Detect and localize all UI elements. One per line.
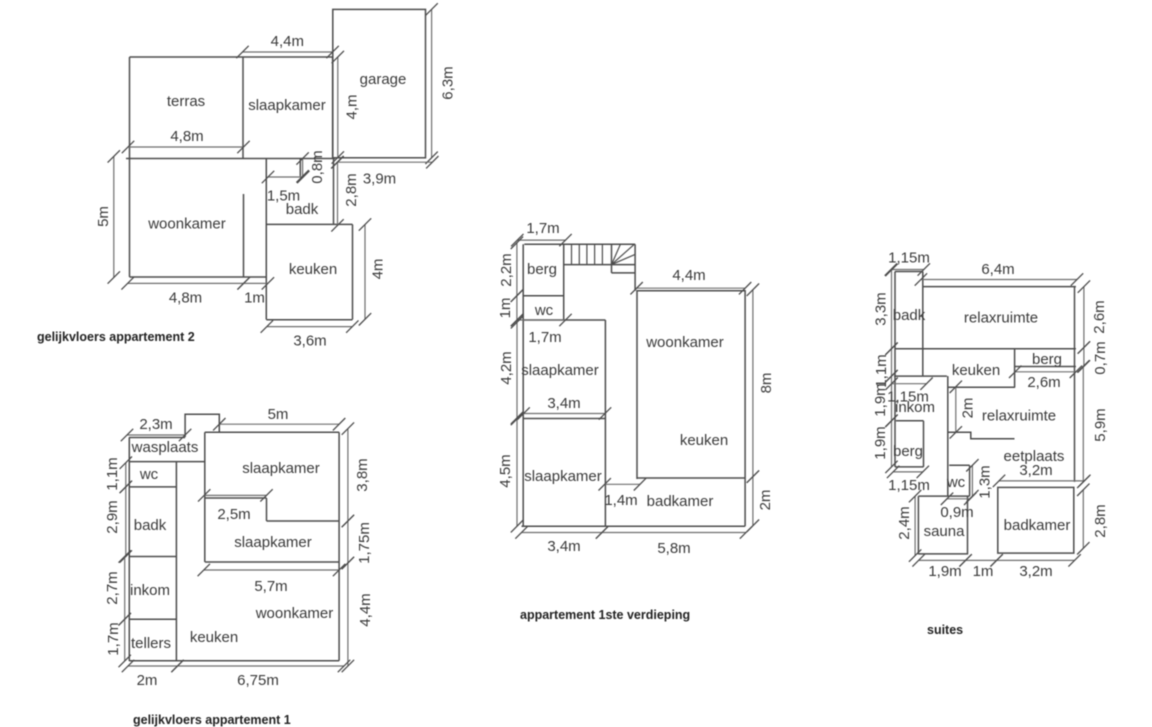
- svg-text:berg: berg: [527, 261, 557, 278]
- wall badk bottom / keuken top: [266, 223, 352, 225]
- wall wc right: [969, 465, 971, 496]
- dim 1,1m wc height: [125, 463, 127, 487]
- svg-text:wc: wc: [946, 474, 966, 491]
- wall badk bottom: [129, 556, 176, 558]
- wall left terras+woonkamer: [129, 57, 131, 277]
- dim 4,8m terras width: [128, 146, 244, 148]
- svg-text:badk: badk: [134, 517, 167, 534]
- svg-text:2m: 2m: [137, 672, 158, 689]
- svg-text:4m: 4m: [370, 259, 387, 280]
- svg-text:3,6m: 3,6m: [293, 332, 326, 349]
- svg-text:6,3m: 6,3m: [440, 66, 457, 99]
- svg-text:slaapkamer: slaapkamer: [234, 534, 312, 551]
- dim 2,6m berg2 width: [1015, 371, 1076, 373]
- dim 8m woonkamer height: [752, 290, 754, 477]
- wall wc bottom / sauna top: [918, 495, 969, 497]
- svg-text:1,9m: 1,9m: [872, 426, 889, 459]
- svg-text:2,5m: 2,5m: [217, 506, 250, 523]
- svg-text:4,8m: 4,8m: [169, 290, 202, 307]
- dim 3,2m eetplaats width: [999, 480, 1084, 482]
- svg-text:2,9m: 2,9m: [104, 500, 121, 533]
- wall woonkamer right / keuken left: [265, 159, 267, 320]
- svg-text:badk: badk: [286, 201, 319, 218]
- svg-text:woonkamer: woonkamer: [255, 605, 334, 622]
- svg-text:5,7m: 5,7m: [254, 578, 287, 595]
- dim 2,8m badk height: [337, 162, 339, 225]
- dim 1m wc height: [516, 296, 518, 320]
- svg-text:1,7m: 1,7m: [528, 329, 561, 346]
- dim 1m gap width: [966, 559, 997, 561]
- dim 1,1m gap height: [891, 349, 893, 376]
- svg-text:2,8m: 2,8m: [343, 173, 360, 206]
- svg-text:badkamer: badkamer: [647, 493, 714, 510]
- wall garage outline: [333, 9, 426, 157]
- dim 5m slaapkamer width: [219, 423, 339, 425]
- svg-text:0,7m: 0,7m: [1092, 341, 1109, 374]
- wall slaapkamer step side: [266, 498, 268, 521]
- svg-text:4,4m: 4,4m: [271, 33, 304, 50]
- svg-text:terras: terras: [167, 93, 205, 110]
- wall sauna left: [917, 496, 919, 554]
- dim 4,5m slaapkamer2 height: [516, 419, 518, 526]
- svg-text:4,2m: 4,2m: [498, 351, 515, 384]
- wall woonkamer top: [637, 290, 746, 292]
- wall outer right: [744, 290, 746, 526]
- wall outer bottom: [129, 660, 339, 662]
- wall berg right: [563, 244, 565, 320]
- dim 0,7m berg2 height: [1083, 348, 1085, 367]
- dim 1,7m wc width: [517, 319, 565, 321]
- svg-text:3,4m: 3,4m: [547, 538, 580, 555]
- dim 0,9m wc width: [947, 498, 970, 500]
- svg-text:1m: 1m: [973, 563, 994, 580]
- wall wc bottom / slaapkamer top: [523, 319, 605, 321]
- wall berg bottom: [895, 466, 924, 468]
- dim 1,15m badk width: [891, 269, 924, 271]
- wall keuken bottom: [266, 319, 352, 321]
- dim 2,2m berg height: [516, 243, 518, 296]
- dim 2m badkamer height: [752, 477, 754, 526]
- dim 1,15m berg width: [893, 471, 923, 473]
- svg-text:2,8m: 2,8m: [1092, 504, 1109, 537]
- stair treads: [572, 244, 603, 264]
- dim 3,3m badk height: [891, 270, 893, 349]
- wall berg/wc divider: [523, 295, 564, 297]
- wall outer bottom: [522, 525, 746, 527]
- dim 4,2m slaapkamer height: [516, 322, 518, 418]
- wall berg2 bottom: [1015, 366, 1076, 368]
- dim 5,9m relax2 height: [1082, 366, 1084, 482]
- wall slaapkamer left: [204, 432, 206, 562]
- svg-text:5m: 5m: [268, 406, 289, 423]
- wall top of terras+slaapkamer: [130, 56, 333, 58]
- svg-text:woonkamer: woonkamer: [147, 216, 226, 233]
- svg-text:berg: berg: [893, 443, 923, 460]
- svg-text:2,6m: 2,6m: [1027, 374, 1060, 391]
- svg-text:slaapkamer: slaapkamer: [242, 460, 320, 477]
- svg-text:keuken: keuken: [190, 629, 238, 646]
- svg-text:suites: suites: [927, 623, 963, 637]
- dim 5,8m badkamer width: [602, 532, 746, 534]
- svg-text:5m: 5m: [95, 206, 112, 227]
- svg-text:sauna: sauna: [924, 523, 966, 540]
- svg-text:inkom: inkom: [130, 582, 170, 599]
- svg-text:1m: 1m: [497, 298, 514, 319]
- wall inkom top: [894, 375, 947, 377]
- dim 4,4m woonkamer height: [347, 563, 349, 666]
- svg-text:1,15m: 1,15m: [888, 250, 930, 267]
- dim 3,2m badkamer width: [997, 559, 1075, 561]
- svg-text:8m: 8m: [758, 373, 775, 394]
- dim 4m keuken height: [364, 225, 366, 320]
- wall stair right: [634, 244, 636, 290]
- wall stub at badk niche: [299, 159, 301, 177]
- svg-text:6,75m: 6,75m: [237, 672, 279, 689]
- svg-text:gelijkvloers appartement 2: gelijkvloers appartement 2: [37, 330, 195, 344]
- dim 1,3m wc height: [971, 465, 973, 496]
- wall below terras/slaapkamer: [126, 158, 335, 160]
- svg-text:badkamer: badkamer: [1004, 517, 1071, 534]
- svg-text:appartement 1ste verdieping: appartement 1ste verdieping: [520, 608, 690, 622]
- svg-text:2,7m: 2,7m: [104, 571, 121, 604]
- svg-text:2m: 2m: [757, 490, 774, 511]
- svg-text:4,4m: 4,4m: [357, 593, 374, 626]
- wall keuken right: [1014, 348, 1016, 387]
- wall berg top: [896, 420, 924, 422]
- wall notch above wasplaats: [185, 414, 219, 437]
- svg-text:keuken: keuken: [680, 432, 728, 449]
- svg-text:4,m: 4,m: [344, 94, 361, 119]
- svg-text:inkom: inkom: [895, 399, 935, 416]
- dim 2,7m inkom height: [124, 557, 126, 620]
- wall slaapkamer right: [332, 57, 334, 159]
- svg-text:wasplaats: wasplaats: [131, 439, 199, 456]
- dim 2,6m relaxruimte height: [1083, 287, 1085, 348]
- wall badk right: [922, 272, 924, 377]
- wall terras/slaapkamer divider: [242, 57, 244, 159]
- stair landing side: [611, 244, 613, 273]
- dim 6,3m garage height: [431, 9, 433, 157]
- svg-text:garage: garage: [360, 71, 407, 88]
- svg-text:0,9m: 0,9m: [940, 504, 973, 521]
- dim 3,6m keuken width: [267, 326, 353, 328]
- svg-text:woonkamer: woonkamer: [645, 334, 724, 351]
- svg-text:2,3m: 2,3m: [139, 416, 172, 433]
- svg-text:keuken: keuken: [289, 261, 337, 278]
- wall sauna bottom: [918, 553, 968, 555]
- wall step relaxruimte: [948, 432, 1015, 439]
- dim 2,8m badkamer height: [1082, 490, 1084, 549]
- wall slaapkamer2 bottom: [205, 561, 339, 563]
- svg-text:gelijkvloers appartement 1: gelijkvloers appartement 1: [133, 713, 291, 727]
- wall sauna right: [967, 496, 969, 554]
- dim 1,9m inkom height: [891, 376, 893, 421]
- dim 6,4m relaxruimte width: [921, 279, 1077, 281]
- wall outer left: [522, 244, 524, 526]
- wall slaapkamer divider right part: [267, 520, 340, 522]
- dim 1,9m sauna width: [919, 559, 966, 561]
- svg-text:1,7m: 1,7m: [105, 622, 122, 655]
- svg-text:slaapkamer: slaapkamer: [524, 468, 602, 485]
- svg-text:relaxruimte: relaxruimte: [982, 408, 1056, 425]
- svg-text:1,3m: 1,3m: [977, 465, 994, 498]
- wall wasplaats top: [129, 437, 185, 439]
- wall wc top: [949, 464, 969, 466]
- stair landing bottom: [612, 272, 636, 274]
- dim 0,8m notch height: [302, 159, 304, 177]
- svg-text:2,2m: 2,2m: [498, 253, 515, 286]
- dim 1m hall width: [244, 282, 268, 284]
- svg-text:berg: berg: [1032, 351, 1062, 368]
- wall badkamer top: [637, 477, 745, 479]
- svg-text:keuken: keuken: [952, 362, 1000, 379]
- dim 2m tellers width: [128, 665, 178, 667]
- dim 4,8m woonkamer width: [128, 282, 244, 284]
- dim 4,4m woonkamer width: [637, 287, 746, 289]
- dim 3,4m slaapkamer width bottom: [522, 532, 603, 534]
- svg-text:2,6m: 2,6m: [1091, 300, 1108, 333]
- wall wasplaats bottom: [129, 461, 205, 463]
- wall woonkamer bottom: [130, 276, 267, 278]
- wall outer left column: [894, 272, 896, 467]
- svg-text:5,9m: 5,9m: [1092, 408, 1109, 441]
- dim 6,75m keuken+woonkamer width: [178, 665, 345, 667]
- svg-text:4,8m: 4,8m: [170, 128, 203, 145]
- wall top berg+stairs: [524, 243, 635, 245]
- wall slaapkamer step top: [205, 497, 267, 499]
- wall keuken right: [352, 224, 354, 319]
- dim 1,7m berg width: [517, 239, 565, 241]
- dim 5,7m slaapkamer2 width: [204, 569, 339, 571]
- wall outer right: [338, 432, 340, 661]
- svg-text:3,8m: 3,8m: [354, 458, 371, 491]
- svg-text:1,1m: 1,1m: [104, 457, 121, 490]
- svg-text:1,7m: 1,7m: [526, 220, 559, 237]
- dim 4,4m slaapkamer width: [243, 51, 333, 53]
- svg-text:2m: 2m: [960, 398, 977, 419]
- svg-text:6,4m: 6,4m: [981, 261, 1014, 278]
- svg-text:2,4m: 2,4m: [896, 506, 913, 539]
- svg-text:1,4m: 1,4m: [604, 492, 637, 509]
- wall slaapkamer divider: [523, 418, 605, 420]
- wall berg right: [923, 421, 925, 467]
- wall inkom bottom: [129, 618, 176, 620]
- wall relaxruimte top: [923, 286, 1076, 288]
- dim 3,8m slaapkamer height: [347, 429, 349, 521]
- wall wc/badk/inkom/tellers right: [175, 462, 177, 661]
- dim 1,4m door width: [605, 483, 640, 485]
- dim 2,3m wasplaats width: [127, 434, 185, 436]
- svg-text:1,15m: 1,15m: [888, 477, 930, 494]
- svg-text:3,9m: 3,9m: [363, 171, 396, 188]
- dim 2m step height: [955, 387, 957, 433]
- dim 1,15m inkom width: [892, 383, 927, 385]
- svg-text:1m: 1m: [244, 290, 265, 307]
- dim 1,9m berg height: [891, 421, 893, 467]
- svg-text:badk: badk: [893, 307, 926, 324]
- svg-text:slaapkamer: slaapkamer: [521, 362, 599, 379]
- wall outer right upper: [1074, 287, 1076, 482]
- svg-text:tellers: tellers: [131, 635, 171, 652]
- svg-text:eetplaats: eetplaats: [1004, 448, 1065, 465]
- dim 2,9m badk height: [125, 487, 127, 557]
- wall slaapkamers right: [604, 320, 606, 526]
- dim 2,5m slaapkamer step width: [204, 494, 266, 496]
- dim 5m woonkamer height: [113, 156, 115, 277]
- svg-text:0,8m: 0,8m: [309, 150, 326, 183]
- svg-text:3,3m: 3,3m: [873, 292, 890, 325]
- wall outer left: [128, 438, 130, 662]
- svg-text:1,9m: 1,9m: [928, 563, 961, 580]
- dim 1,7m tellers height: [124, 619, 126, 661]
- svg-text:wc: wc: [534, 302, 554, 319]
- dim 3,4m slaapkamer width: [524, 413, 605, 415]
- wall keuken bottom: [948, 386, 1015, 388]
- stair run bottom: [564, 264, 635, 266]
- wall badk right: [333, 159, 335, 225]
- svg-text:slaapkamer: slaapkamer: [248, 97, 326, 114]
- svg-text:relaxruimte: relaxruimte: [964, 310, 1038, 327]
- dim 2,4m sauna height: [914, 496, 916, 555]
- wall wc bottom: [129, 486, 176, 488]
- svg-text:5,8m: 5,8m: [657, 540, 690, 557]
- dim 3,9m garage width: [337, 161, 432, 163]
- wall inkom right long: [947, 376, 949, 496]
- wall slaapkamer top: [205, 431, 339, 433]
- dim 4,m slaapkamer height: [337, 57, 339, 158]
- svg-text:wc: wc: [139, 466, 159, 483]
- dim 1,75m divider height: [347, 521, 349, 563]
- stair winder fan: [612, 244, 636, 264]
- wall woonkamer/hall divider: [243, 194, 245, 277]
- svg-text:3,2m: 3,2m: [1019, 563, 1052, 580]
- wall relaxruimte bottom / keuken top: [895, 348, 1076, 350]
- wall badkamer outline: [998, 487, 1074, 553]
- svg-text:1,75m: 1,75m: [356, 522, 373, 564]
- wall keuken left: [636, 290, 638, 479]
- wall badk top: [895, 271, 923, 273]
- svg-text:1,1m: 1,1m: [873, 354, 890, 387]
- svg-text:3,4m: 3,4m: [547, 395, 580, 412]
- svg-text:4,5m: 4,5m: [497, 454, 514, 487]
- dim 1,5m badk width: [268, 176, 303, 178]
- svg-text:4,4m: 4,4m: [672, 267, 705, 284]
